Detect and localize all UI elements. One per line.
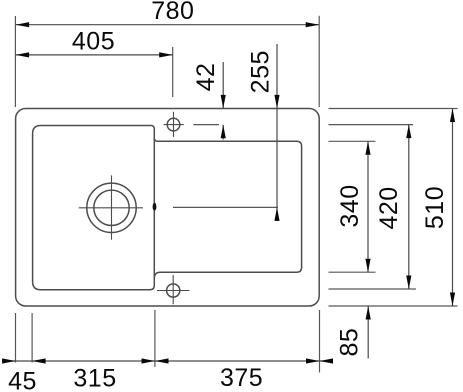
arrow 405 right — [159, 52, 173, 57]
svg-text:510: 510 — [421, 186, 449, 229]
arrow 255 down — [274, 95, 279, 109]
arrow 45 right-outside — [32, 358, 46, 363]
arrow 510 down — [450, 293, 455, 307]
svg-text:375: 375 — [220, 364, 263, 392]
arrow bottom close — [320, 358, 334, 363]
dim line bottom — [2, 360, 333, 362]
arrow 340 up — [365, 141, 370, 155]
dim line 42 lower — [222, 125, 224, 140]
dim line 42 upper — [222, 62, 224, 108]
bottom ext left edge — [15, 313, 17, 363]
ext line right (780) — [318, 16, 320, 107]
ext line 405/42 hole — [172, 47, 174, 97]
dim line 255 — [276, 44, 278, 221]
svg-text:42: 42 — [192, 63, 220, 92]
arrow 375 right — [306, 358, 320, 363]
svg-text:85: 85 — [335, 328, 363, 357]
overflow tick — [153, 203, 157, 211]
arrow 45 left-outside — [2, 358, 16, 363]
arrow 375 left — [155, 358, 169, 363]
arrow 420 up — [406, 125, 411, 139]
svg-text:255: 255 — [246, 50, 274, 93]
faucet hole bottom — [167, 284, 180, 297]
drainer outline — [154, 138, 301, 278]
drain crosshair — [79, 175, 143, 239]
svg-text:45: 45 — [8, 368, 37, 392]
faucet hole top — [167, 118, 180, 131]
svg-text:420: 420 — [375, 186, 403, 229]
dim line 510 — [452, 109, 454, 307]
right ext hole bottom center — [329, 288, 417, 290]
right ext bottom edge — [329, 305, 458, 307]
ext line left (780/405) — [14, 16, 16, 107]
faucet hole top crosshair — [164, 112, 184, 137]
right ext hole top center — [329, 124, 414, 126]
arrow 255 up — [274, 207, 279, 221]
svg-text:780: 780 — [151, 0, 194, 25]
right ext drainer bottom — [329, 271, 376, 273]
bowl — [33, 126, 155, 290]
faucet hole bottom crosshair — [157, 275, 190, 304]
sink outer rim — [16, 109, 320, 307]
ext line 255 drain center — [173, 206, 278, 208]
arrow 340 down — [365, 259, 370, 273]
arrow 780 right — [306, 22, 320, 27]
dim line 780 — [16, 24, 320, 26]
arrow 315 right — [142, 358, 156, 363]
bottom ext right — [319, 310, 321, 373]
bottom ext bowl left — [31, 313, 33, 363]
arrow 405 left — [16, 52, 30, 57]
arrow 42 up — [221, 125, 226, 139]
bottom ext bowl right — [154, 310, 156, 367]
svg-text:340: 340 — [336, 184, 364, 227]
drain circle outer — [87, 183, 136, 232]
svg-text:315: 315 — [73, 365, 116, 392]
dim line 420 — [408, 125, 410, 289]
right ext drainer top — [329, 140, 376, 142]
arrow 780 left — [16, 22, 30, 27]
dim line 405 — [16, 54, 173, 56]
drain circle inner — [94, 190, 129, 225]
dim line 85 — [367, 306, 369, 359]
svg-text:405: 405 — [72, 27, 115, 55]
right ext top edge — [329, 108, 458, 110]
arrow 42 down — [221, 95, 226, 109]
arrow 420 down — [406, 276, 411, 290]
ext line 42 hole center — [193, 124, 219, 126]
arrow 85 up — [366, 306, 371, 320]
arrow 510 up — [450, 109, 455, 123]
dim line 340 — [367, 141, 369, 272]
